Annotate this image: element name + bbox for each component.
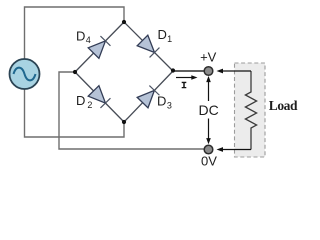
terminal 0V	[204, 145, 213, 154]
AC source	[10, 59, 40, 89]
node right vertex	[171, 68, 175, 72]
svg-text:D3: D3	[157, 94, 172, 111]
svg-text:0V: 0V	[201, 154, 217, 169]
wire top: AC source top to bridge top vertex	[25, 7, 125, 59]
diode D1	[137, 35, 160, 58]
label I	[182, 82, 187, 89]
arrow load top to +V	[217, 69, 252, 74]
wire: bridge right vertex to +V terminal	[173, 70, 205, 72]
diode D4	[88, 36, 111, 59]
svg-text:+V: +V	[200, 50, 217, 65]
bridge edge top-left	[75, 22, 124, 72]
wire: bridge left vertex to 0V terminal	[59, 72, 205, 149]
node bottom vertex	[122, 120, 126, 124]
svg-text:D4: D4	[76, 29, 91, 46]
terminal +V	[204, 67, 213, 76]
svg-text:Load: Load	[269, 98, 298, 113]
wire bottom: AC source bottom to bridge bottom vertex	[25, 89, 125, 137]
arrow DC down	[206, 119, 211, 145]
arrow DC up	[206, 76, 211, 101]
arrow current I	[176, 75, 198, 80]
node left vertex	[73, 70, 77, 74]
load dashed box	[235, 63, 266, 157]
svg-text:D1: D1	[158, 27, 173, 44]
load resistor	[245, 71, 256, 150]
bridge edge top-right	[124, 22, 173, 71]
arrow load bottom to 0V	[217, 147, 252, 152]
diode D2	[88, 86, 111, 109]
node top vertex	[122, 20, 126, 24]
bridge edge bottom-right	[124, 71, 173, 122]
svg-text:DC: DC	[198, 102, 218, 118]
bridge edge bottom-left	[75, 72, 124, 122]
diode D3	[137, 85, 160, 108]
